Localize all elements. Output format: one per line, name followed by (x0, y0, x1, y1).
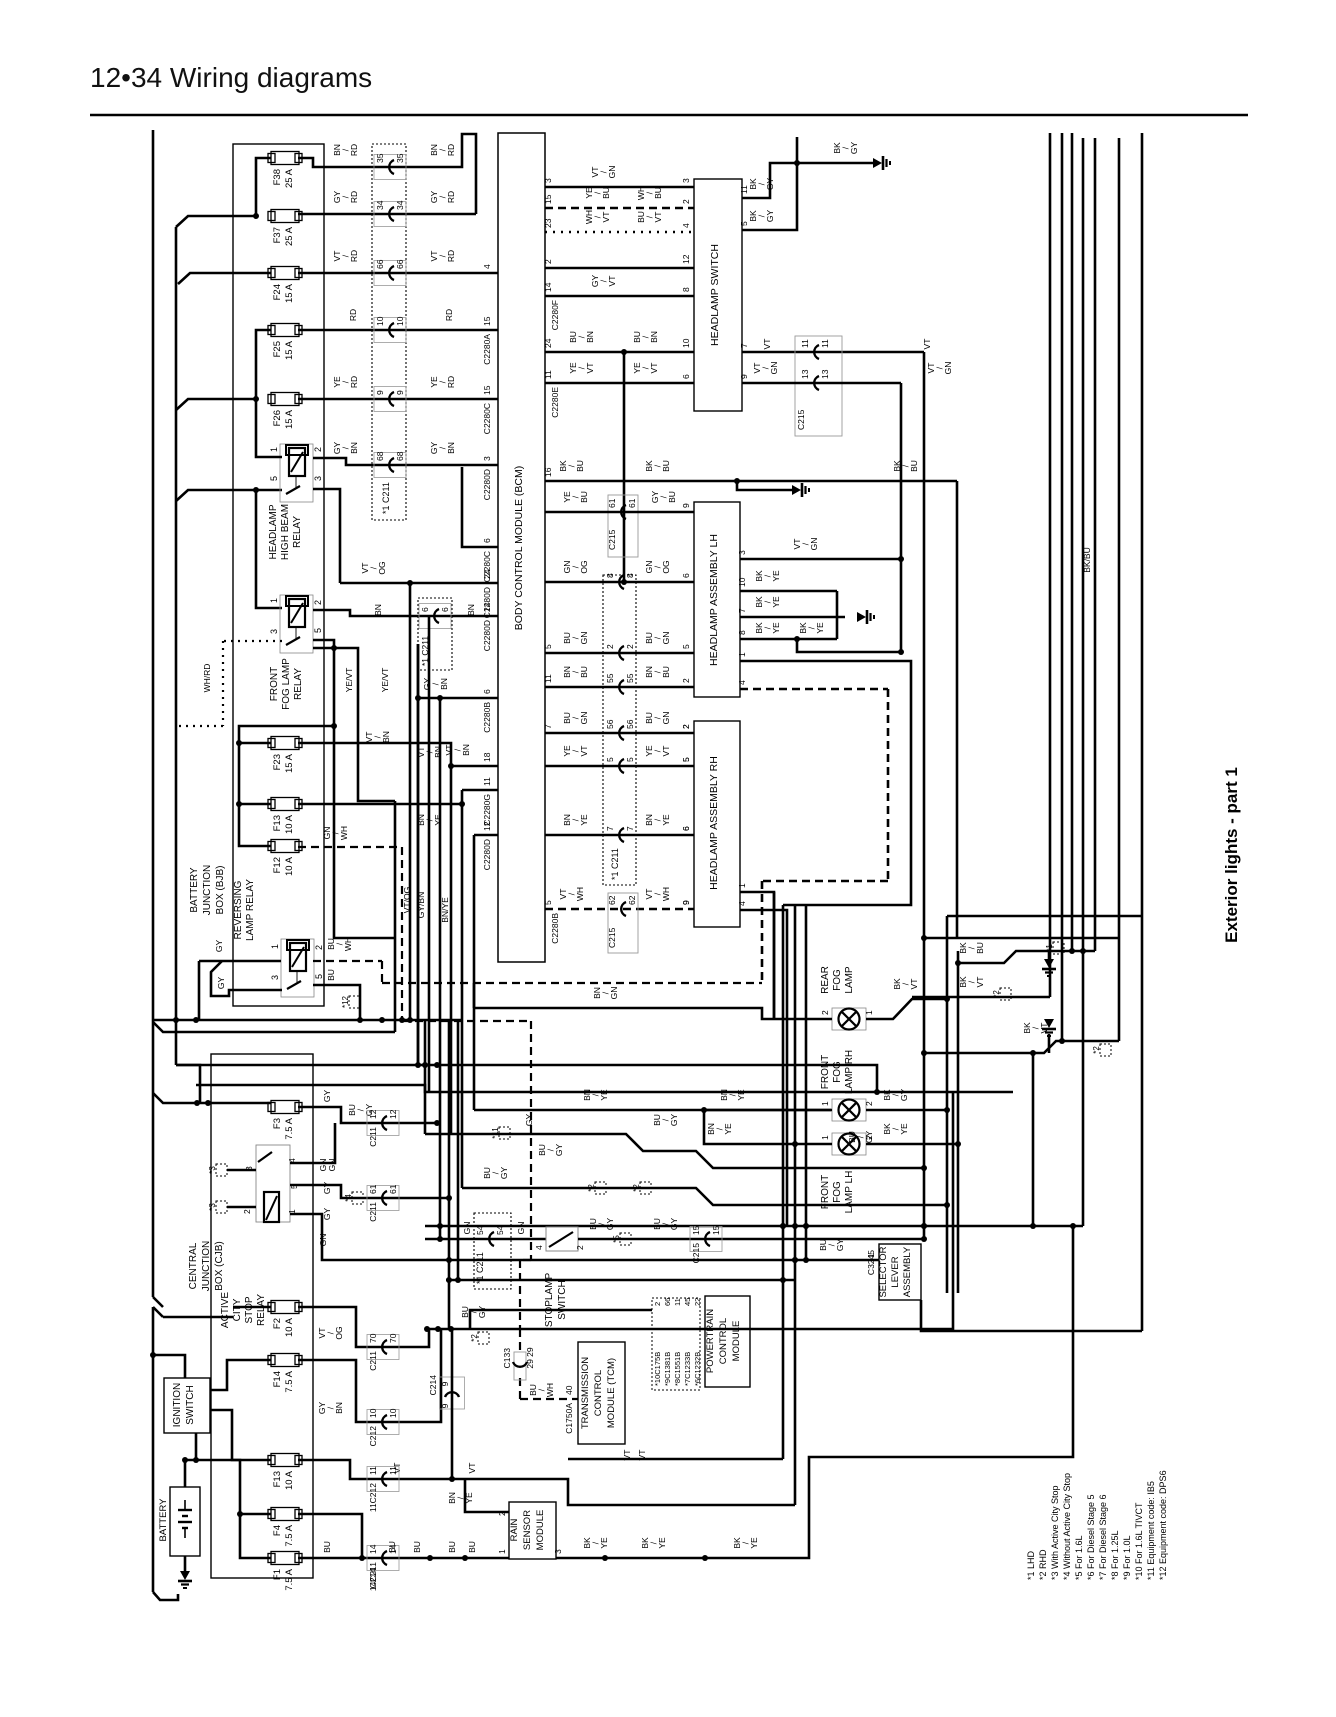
wire LH pin3 VT/GN (740, 556, 904, 562)
wire F4 feed (237, 1511, 271, 1517)
BCM pin C2280D 12 (482, 821, 492, 870)
svg-text:RD: RD (446, 191, 456, 203)
svg-text:F13: F13 (272, 815, 283, 831)
label YE/VT a (344, 668, 354, 693)
svg-text:1: 1 (737, 883, 747, 888)
transmission control module box (578, 1342, 625, 1444)
page title (90, 62, 372, 93)
svg-text:1: 1 (866, 1253, 876, 1258)
BCM pin C2280D 3 (482, 456, 492, 500)
svg-text:F13: F13 (272, 1471, 283, 1487)
svg-text:2: 2 (313, 447, 323, 452)
wire F2 feed (233, 1306, 271, 1309)
wire HS row187 (545, 186, 694, 189)
connector 13 HS (800, 369, 830, 390)
label GY/BN F14 (317, 1402, 344, 1415)
label BK/BU bus (1082, 547, 1092, 573)
relay FF pin 2 (313, 600, 323, 605)
rain sensor module box (509, 1502, 556, 1559)
wire HS row232 dotted (545, 231, 694, 234)
svg-text:GY: GY (499, 1167, 509, 1180)
svg-text:2: 2 (681, 724, 691, 729)
wire row835r (545, 834, 694, 837)
svg-text:C2280C: C2280C (482, 403, 492, 434)
svg-text:1: 1 (820, 1101, 830, 1106)
wire rain pin2 (465, 1479, 509, 1512)
svg-text:7: 7 (543, 724, 553, 729)
svg-text:10: 10 (395, 316, 405, 326)
svg-text:34: 34 (375, 200, 385, 210)
svg-text:15 A: 15 A (284, 753, 295, 773)
wire F25 feed (253, 330, 271, 402)
svg-text:7.5 A: 7.5 A (284, 1568, 295, 1590)
svg-text:2: 2 (864, 1101, 874, 1106)
wire F4 out (298, 1514, 362, 1558)
fuse F13 10A (268, 798, 302, 835)
connector C215 box HS (795, 336, 842, 436)
svg-text:BN: BN (381, 731, 391, 743)
svg-text:11: 11 (388, 1466, 398, 1475)
svg-text:F2: F2 (272, 1318, 283, 1329)
svg-text:GY: GY (322, 1208, 332, 1221)
svg-text:BN: BN (649, 331, 659, 343)
label *1 C211 col2 (610, 848, 620, 880)
svg-text:F1: F1 (272, 1569, 283, 1580)
svg-text:16: 16 (543, 467, 553, 477)
svg-text:*2 RHD: *2 RHD (1038, 1549, 1048, 1580)
svg-text:5: 5 (543, 644, 553, 649)
svg-text:15: 15 (482, 385, 492, 395)
label row232 (543, 210, 691, 228)
svg-text:15: 15 (543, 194, 553, 204)
relay front fog lamp (280, 595, 313, 653)
label BU/GY stoplamp (588, 1218, 679, 1245)
svg-text:BN: BN (433, 746, 443, 758)
label LH pin1 (737, 652, 747, 657)
svg-text:*4: *4 (344, 1194, 353, 1202)
connector C133 (502, 1347, 535, 1380)
svg-text:BU: BU (575, 460, 585, 472)
wire mesh LH fog drop (704, 1110, 795, 1144)
wire F1 out (298, 1555, 509, 1561)
wire bus x783 (780, 905, 786, 1459)
svg-text:10 A: 10 A (284, 1470, 295, 1490)
wire HS row352 drop (621, 352, 627, 585)
wire mesh row1134 stair (425, 1134, 927, 1171)
fuse F23 15A (268, 737, 302, 774)
label YE/RD row9 (332, 376, 456, 388)
svg-text:2: 2 (605, 644, 615, 649)
relay RL pin 1 (270, 944, 280, 949)
fuse F24 15A (268, 267, 302, 304)
selector lever assembly box (879, 1244, 921, 1300)
svg-text:BU: BU (322, 1541, 332, 1553)
connector 11 HS (800, 339, 830, 359)
svg-text:BATTERY: BATTERY (189, 867, 200, 913)
wire mesh x425 (422, 1020, 428, 1134)
label GN acs (318, 1159, 337, 1247)
svg-text:YE: YE (464, 1492, 474, 1504)
svg-text:7: 7 (739, 343, 749, 348)
wire VT row1479 (406, 1476, 795, 1505)
svg-text:14: 14 (482, 602, 492, 612)
wire VT riser (568, 1458, 783, 1461)
wire selector frame (921, 1300, 1142, 1331)
label RD row10 (348, 309, 454, 321)
svg-text:*3 With Active City Stop: *3 With Active City Stop (1050, 1485, 1060, 1580)
svg-text:GY: GY (765, 178, 775, 191)
svg-text:15: 15 (691, 1225, 701, 1235)
svg-text:10: 10 (737, 577, 747, 587)
label BN/YE vert (440, 897, 450, 923)
connector 10 (374, 316, 406, 342)
wire bus x957 (956, 481, 959, 938)
svg-text:BU: BU (579, 666, 589, 678)
svg-text:3: 3 (313, 476, 323, 481)
svg-text:62: 62 (627, 895, 637, 905)
central junction box (CJB) (211, 1054, 313, 1578)
label LH pin3 (737, 538, 819, 555)
wire mesh x458 (457, 1020, 460, 1280)
svg-text:BU: BU (975, 942, 985, 954)
wire mesh row1110 (474, 1107, 831, 1113)
ground row490 (792, 483, 809, 497)
wire HS pin9 VT/GN (742, 382, 901, 385)
svg-text:YE: YE (661, 814, 671, 826)
label GY rl2 (216, 977, 226, 990)
svg-text:*1 C211: *1 C211 (610, 848, 620, 880)
svg-text:10 A: 10 A (284, 814, 295, 834)
svg-text:24: 24 (543, 338, 553, 348)
svg-text:FRONT: FRONT (269, 667, 280, 701)
wire row481 gnd branch (737, 481, 795, 490)
wire dashed C133 (520, 1329, 578, 1399)
svg-text:10: 10 (375, 316, 385, 326)
svg-text:GY: GY (322, 1182, 332, 1195)
BCM pin C2280B 6 (482, 689, 492, 733)
svg-text:GY: GY (864, 1131, 874, 1144)
wire front fog RH return (866, 1107, 950, 1113)
svg-text:YE: YE (771, 596, 781, 608)
wire bus v4 (1082, 138, 1085, 1226)
wire mesh x429 (428, 616, 431, 1092)
wire row916 (947, 915, 1142, 918)
svg-text:OG: OG (334, 1326, 344, 1339)
fuse F4 7.5A (268, 1508, 302, 1547)
svg-text:GY: GY (669, 1114, 679, 1127)
svg-text:WH/RD: WH/RD (202, 664, 212, 693)
svg-text:F26: F26 (272, 410, 283, 426)
headlamp assembly RH label (708, 756, 720, 890)
svg-text:66: 66 (395, 259, 405, 269)
svg-text:56: 56 (625, 719, 635, 729)
wire HB coil feed (256, 399, 282, 457)
wire ACS pin4 (290, 1123, 335, 1163)
svg-text:*1 LHD: *1 LHD (1026, 1550, 1036, 1580)
label ff RH return (882, 1089, 909, 1102)
wire F14 out (298, 1329, 441, 1422)
wire F23 feed (239, 723, 337, 743)
wire row997 (912, 996, 1050, 999)
svg-text:9: 9 (681, 503, 691, 508)
wire HB pin5 bus (256, 490, 282, 608)
svg-text:4: 4 (737, 901, 747, 906)
front fog LH label (820, 1171, 855, 1214)
svg-text:*3: *3 (208, 1203, 217, 1211)
fuse F1 7.5A (268, 1552, 302, 1591)
label BK/GY top (832, 142, 859, 155)
wire mesh row1092 (196, 1085, 1013, 1095)
wire RL feed drop (198, 961, 201, 1020)
relay HB pin 3 (313, 476, 323, 481)
svg-text:29 29: 29 29 (525, 1347, 535, 1369)
svg-text:22: 22 (693, 1298, 702, 1306)
svg-text:BOX (CJB): BOX (CJB) (214, 1241, 225, 1290)
svg-text:YE: YE (736, 1089, 746, 1101)
label BU/GY stair2 (482, 1167, 651, 1194)
wire battery top (185, 1433, 199, 1487)
svg-text:*2: *2 (632, 1184, 641, 1192)
svg-text:61: 61 (627, 498, 637, 508)
BCM pin C2280C 15 (482, 385, 492, 434)
wire F13 feed (236, 740, 271, 804)
svg-text:GN: GN (318, 1234, 328, 1247)
wire bus x795 (792, 905, 798, 1505)
svg-text:*6 For Diesel Stage 5: *6 For Diesel Stage 5 (1086, 1494, 1096, 1580)
svg-text:C211: C211 (368, 1127, 378, 1147)
wire F2 out (298, 1307, 429, 1347)
connector 14 C211 (367, 1544, 399, 1591)
TCM label (580, 1357, 617, 1429)
front fog lamp LH (832, 1133, 866, 1155)
svg-text:RD: RD (444, 309, 454, 321)
wire row951 ground branch (1048, 951, 1051, 962)
wire row1053 ground branch (1048, 1034, 1051, 1053)
ignition switch label (172, 1383, 196, 1427)
wire bus v5 (1094, 138, 1097, 951)
label C214 f1 (368, 1568, 378, 1589)
svg-text:VT: VT (467, 1463, 477, 1474)
svg-text:*2: *2 (587, 1184, 596, 1192)
svg-text:61: 61 (607, 498, 617, 508)
svg-text:12•34 Wiring diagrams: 12•34 Wiring diagrams (90, 62, 372, 93)
label row733 (543, 712, 691, 729)
svg-text:13: 13 (820, 369, 830, 379)
wire RH pin4 (737, 901, 787, 1226)
svg-text:8: 8 (681, 287, 691, 292)
svg-text:VT: VT (661, 746, 671, 757)
wire VT/OG row (340, 580, 413, 1020)
svg-text:1: 1 (269, 598, 279, 603)
svg-text:JUNCTION: JUNCTION (202, 865, 213, 916)
svg-text:RD: RD (348, 309, 358, 321)
wire mesh x395 (394, 801, 397, 1032)
svg-text:CONTROL: CONTROL (718, 1318, 729, 1364)
relay headlamp high beam (280, 444, 313, 502)
wire mesh x449 (446, 1020, 452, 1329)
svg-text:GN: GN (943, 362, 953, 375)
svg-text:3: 3 (553, 1549, 563, 1554)
wire HB pin3 out (313, 489, 340, 583)
svg-text:10: 10 (368, 1408, 378, 1418)
svg-text:2: 2 (314, 945, 324, 950)
wire bus x958 (957, 951, 960, 1293)
svg-text:YE: YE (899, 1123, 909, 1135)
fuse F14 7.5A (268, 1354, 302, 1393)
wire LH pin1 (740, 661, 911, 905)
svg-text:C2280D: C2280D (482, 839, 492, 870)
svg-text:6: 6 (482, 538, 492, 543)
svg-text:1: 1 (269, 447, 279, 452)
svg-text:WH: WH (343, 937, 353, 951)
wire row653 (545, 652, 694, 655)
front fog LH pins (820, 1135, 874, 1140)
svg-text:BU: BU (653, 187, 663, 199)
svg-text:MODULE: MODULE (535, 1510, 546, 1551)
connector C214 vert (428, 1375, 465, 1409)
svg-text:1: 1 (270, 944, 280, 949)
svg-text:GY: GY (554, 1144, 564, 1157)
svg-text:YE/VT: YE/VT (380, 668, 390, 693)
label LH pins right (737, 570, 825, 635)
svg-text:3: 3 (482, 456, 492, 461)
label GY F3 (322, 1090, 374, 1117)
svg-text:3: 3 (270, 975, 280, 980)
svg-text:YE: YE (579, 814, 589, 826)
svg-text:BODY CONTROL MODULE (BCM): BODY CONTROL MODULE (BCM) (513, 466, 525, 631)
wire RL pin5 out (313, 985, 360, 1020)
svg-text:MODULE (TCM): MODULE (TCM) (606, 1358, 617, 1428)
label VT/BN row790 (416, 746, 443, 758)
fuse F3 7.5A (268, 1101, 302, 1140)
headlamp assembly LH label (708, 534, 720, 666)
svg-text:*8C1551B: *8C1551B (673, 1352, 682, 1386)
label C1750A 40 (564, 1385, 574, 1433)
wire F3 out (298, 1107, 440, 1126)
wire bus v7 (1141, 133, 1144, 1331)
svg-text:JUNCTION: JUNCTION (201, 1241, 212, 1292)
svg-text:VT: VT (909, 979, 919, 990)
svg-text:10 A: 10 A (284, 856, 295, 876)
svg-text:3: 3 (269, 629, 279, 634)
label YE/VT b (380, 668, 390, 693)
svg-text:F14: F14 (272, 1371, 283, 1387)
svg-text:14: 14 (388, 1544, 398, 1554)
connector C211 column (372, 144, 406, 520)
svg-text:*11 Equipment code: IB5: *11 Equipment code: IB5 (1146, 1481, 1156, 1580)
label pin5 (739, 210, 775, 226)
label GN stoplamp (462, 1222, 526, 1235)
svg-text:6: 6 (440, 607, 450, 612)
svg-text:HEADLAMP: HEADLAMP (268, 504, 279, 559)
wire row512 (545, 511, 694, 514)
svg-text:2: 2 (681, 199, 691, 204)
label VT/RD row66 (332, 250, 456, 262)
label VT/OG F2 (317, 1326, 344, 1339)
svg-text:5: 5 (681, 757, 691, 762)
label BU/WH rl (326, 937, 353, 981)
label BU/GY selector (818, 1239, 845, 1252)
svg-text:GN: GN (579, 712, 589, 725)
wire dashed stoplamp drop (530, 1021, 532, 1260)
svg-text:54: 54 (495, 1225, 505, 1235)
label C3245 (866, 1250, 876, 1275)
wire front fog LH feed (795, 1143, 832, 1146)
label BN row616 (373, 604, 476, 616)
label row383 (543, 362, 691, 418)
wire F26 out (298, 398, 498, 401)
wire F37 feed (176, 216, 256, 227)
svg-text:CONTROL: CONTROL (593, 1370, 604, 1416)
rain sensor pins (497, 1511, 563, 1554)
svg-text:66: 66 (375, 259, 385, 269)
svg-text:*3: *3 (208, 1166, 217, 1174)
wire LH pin8 branch (797, 639, 904, 655)
relay HB pin 2 (313, 447, 323, 452)
svg-text:*1 C211: *1 C211 (381, 482, 391, 514)
svg-text:F23: F23 (272, 754, 283, 770)
svg-text:C2280A: C2280A (482, 334, 492, 365)
svg-text:VT: VT (607, 276, 617, 287)
svg-text:1: 1 (497, 1549, 507, 1554)
connector 70 (367, 1333, 399, 1370)
fuse F38 25A (268, 152, 302, 189)
wire front fog LH return (866, 1141, 961, 1147)
svg-text:BN: BN (334, 1402, 344, 1414)
side caption (1222, 767, 1241, 943)
svg-text:15 A: 15 A (284, 283, 295, 303)
svg-text:MODULE: MODULE (731, 1321, 742, 1362)
footnote 11 box (491, 1114, 534, 1139)
svg-text:9: 9 (681, 900, 691, 905)
wire mesh row1065 (176, 1062, 877, 1092)
label row582 (562, 560, 691, 578)
connector C215 15 (690, 1225, 722, 1263)
connector 11 C212 (367, 1466, 399, 1512)
svg-text:4: 4 (534, 1245, 544, 1250)
svg-text:YE/VT: YE/VT (344, 668, 354, 693)
svg-text:F24: F24 (272, 284, 283, 300)
svg-text:C211: C211 (368, 1351, 378, 1371)
label GY rl (214, 940, 224, 953)
svg-text:LAMP RELAY: LAMP RELAY (245, 879, 256, 941)
svg-text:ASSEMBLY: ASSEMBLY (902, 1246, 913, 1297)
label row1053 (1022, 1022, 1049, 1034)
connector C211 column 2 (603, 575, 636, 885)
svg-text:23: 23 (543, 218, 553, 228)
svg-text:WH: WH (661, 887, 671, 901)
svg-text:14: 14 (368, 1544, 378, 1554)
wire HS row208 dashed (545, 207, 694, 210)
svg-text:STOP: STOP (244, 1296, 255, 1323)
svg-text:BU: BU (447, 1541, 457, 1553)
svg-text:YE: YE (599, 1089, 609, 1101)
svg-text:BN: BN (461, 744, 471, 756)
wire rear fog return (866, 996, 950, 1019)
svg-text:HEADLAMP ASSEMBLY LH: HEADLAMP ASSEMBLY LH (708, 534, 720, 666)
wire F24 out (298, 272, 498, 275)
svg-text:FOG: FOG (832, 969, 843, 991)
svg-text:VT: VT (579, 746, 589, 757)
relay RL pin 5 (314, 974, 324, 979)
svg-text:24: 24 (482, 569, 492, 579)
label BN/YE drop (706, 1123, 733, 1135)
svg-text:6: 6 (681, 826, 691, 831)
svg-text:GN: GN (579, 632, 589, 645)
label GN/WH (322, 826, 349, 840)
connector 61 CJB (367, 1184, 399, 1221)
wire mesh row1032 (153, 1022, 395, 1032)
